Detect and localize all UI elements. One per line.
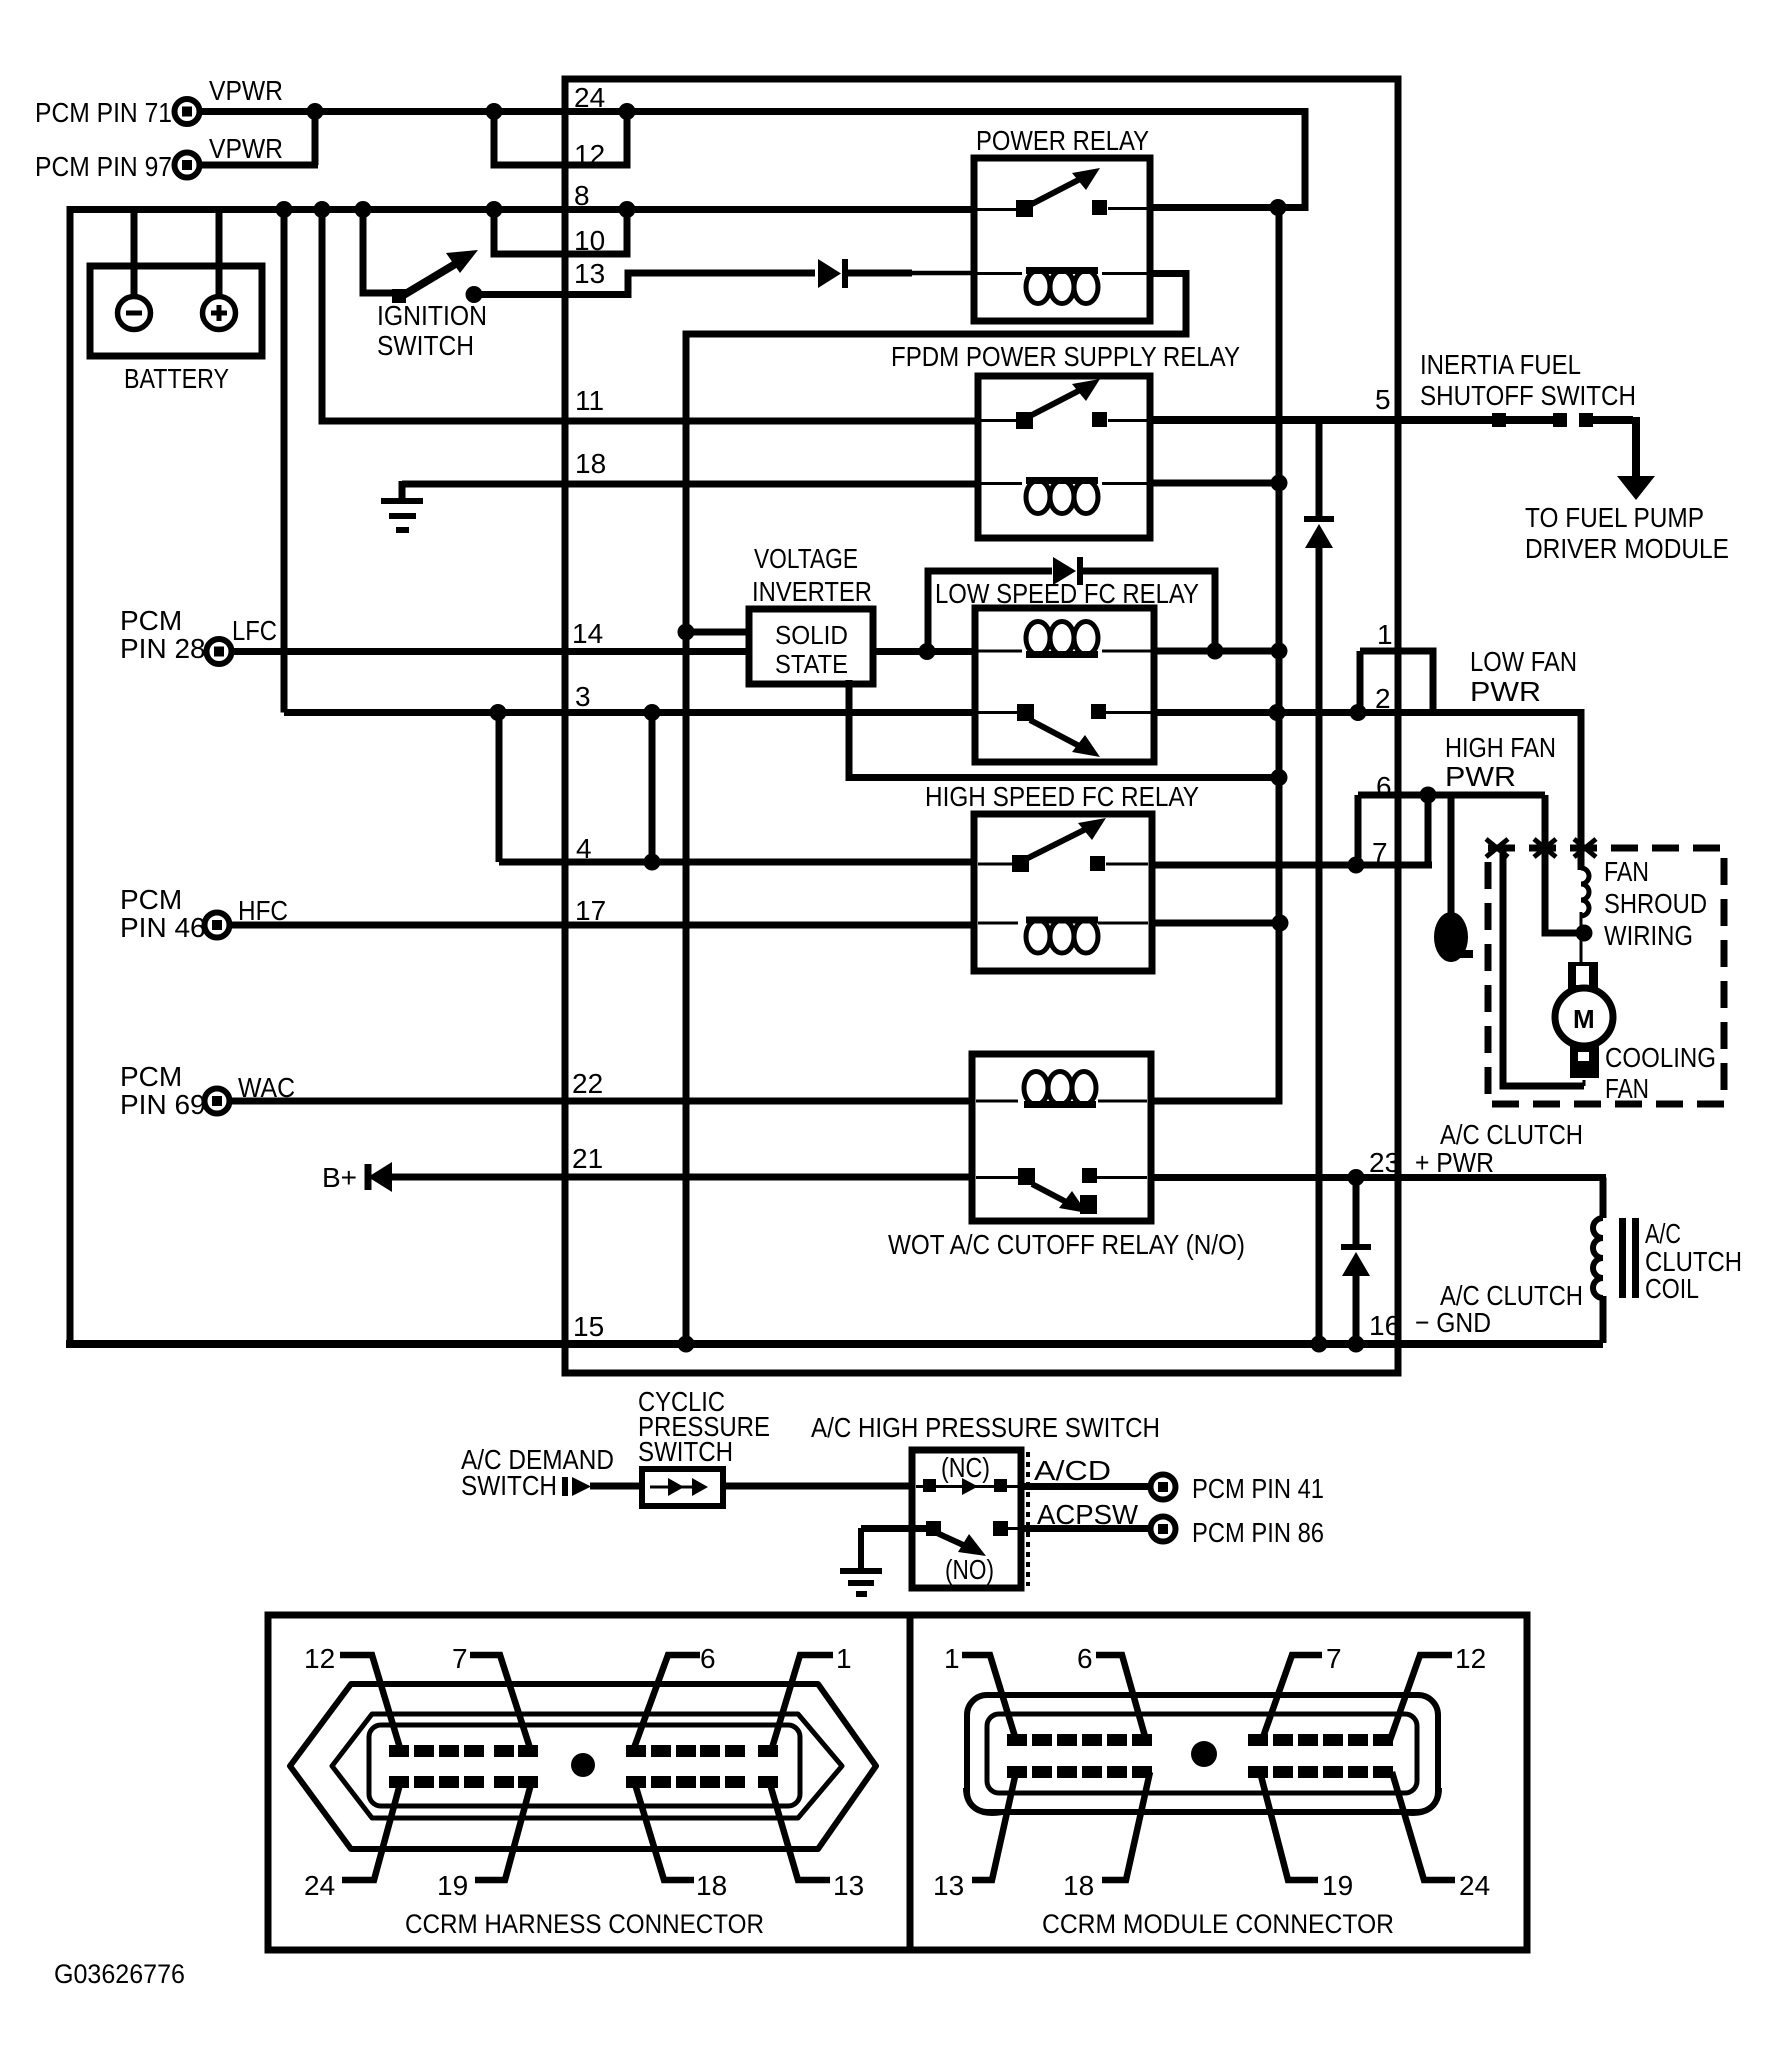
svg-text:+ PWR: + PWR <box>1415 1147 1494 1178</box>
svg-text:BATTERY: BATTERY <box>124 363 229 394</box>
svg-text:G03626776: G03626776 <box>54 1959 185 1989</box>
svg-text:WIRING: WIRING <box>1604 920 1693 951</box>
svg-text:A/CD: A/CD <box>1034 1455 1111 1486</box>
svg-text:FPDM POWER SUPPLY RELAY: FPDM POWER SUPPLY RELAY <box>891 341 1240 372</box>
svg-text:VOLTAGE: VOLTAGE <box>754 543 858 574</box>
svg-text:7: 7 <box>1326 1643 1342 1674</box>
svg-text:11: 11 <box>575 385 604 416</box>
svg-text:VPWR: VPWR <box>209 75 283 106</box>
svg-text:INVERTER: INVERTER <box>752 576 872 607</box>
svg-text:14: 14 <box>572 618 603 649</box>
svg-text:ACPSW: ACPSW <box>1037 1499 1139 1530</box>
svg-text:19: 19 <box>1322 1870 1353 1901</box>
svg-text:13: 13 <box>933 1870 964 1901</box>
svg-text:PIN 69: PIN 69 <box>120 1089 206 1120</box>
svg-text:3: 3 <box>575 681 591 712</box>
svg-text:21: 21 <box>572 1143 603 1174</box>
svg-text:SWITCH: SWITCH <box>377 330 474 361</box>
svg-text:FAN: FAN <box>1605 1073 1649 1104</box>
svg-text:10: 10 <box>574 225 605 256</box>
svg-text:2: 2 <box>1375 683 1391 714</box>
svg-text:SWITCH: SWITCH <box>461 1470 557 1501</box>
svg-text:PWR: PWR <box>1470 676 1541 707</box>
svg-text:PIN 46: PIN 46 <box>120 912 206 943</box>
svg-text:(NO): (NO) <box>945 1554 994 1585</box>
svg-text:7: 7 <box>452 1643 468 1674</box>
svg-text:LOW SPEED FC RELAY: LOW SPEED FC RELAY <box>935 578 1199 609</box>
svg-text:PIN 28: PIN 28 <box>120 633 206 664</box>
svg-text:LOW FAN: LOW FAN <box>1470 646 1577 677</box>
svg-text:PCM PIN 86: PCM PIN 86 <box>1192 1517 1324 1548</box>
svg-text:16: 16 <box>1369 1310 1400 1341</box>
svg-text:PCM PIN 97: PCM PIN 97 <box>35 151 172 182</box>
svg-text:A/C CLUTCH: A/C CLUTCH <box>1440 1119 1583 1150</box>
svg-text:24: 24 <box>304 1870 335 1901</box>
svg-text:24: 24 <box>574 82 605 113</box>
svg-text:8: 8 <box>574 180 590 211</box>
svg-text:A/C: A/C <box>1645 1218 1681 1249</box>
svg-text:CCRM HARNESS CONNECTOR: CCRM HARNESS CONNECTOR <box>405 1909 764 1939</box>
svg-text:INERTIA FUEL: INERTIA FUEL <box>1420 349 1581 380</box>
svg-text:HFC: HFC <box>238 895 288 926</box>
svg-text:COOLING: COOLING <box>1605 1042 1716 1073</box>
svg-text:M: M <box>1573 1004 1595 1034</box>
svg-text:IGNITION: IGNITION <box>377 300 487 331</box>
svg-text:15: 15 <box>573 1311 604 1342</box>
svg-text:VPWR: VPWR <box>209 133 283 164</box>
svg-text:HIGH SPEED FC RELAY: HIGH SPEED FC RELAY <box>925 781 1199 812</box>
svg-text:TO FUEL PUMP: TO FUEL PUMP <box>1525 502 1704 533</box>
svg-text:PWR: PWR <box>1445 761 1516 792</box>
svg-text:SOLID: SOLID <box>775 620 848 650</box>
svg-text:13: 13 <box>574 258 605 289</box>
svg-text:POWER RELAY: POWER RELAY <box>976 125 1149 156</box>
svg-text:− GND: − GND <box>1415 1307 1491 1338</box>
svg-text:5: 5 <box>1375 384 1391 415</box>
svg-text:22: 22 <box>572 1068 603 1099</box>
svg-text:23: 23 <box>1369 1147 1400 1178</box>
svg-text:19: 19 <box>437 1870 468 1901</box>
svg-text:PCM PIN 71: PCM PIN 71 <box>35 97 172 128</box>
svg-text:WAC: WAC <box>238 1072 295 1103</box>
svg-text:18: 18 <box>696 1870 727 1901</box>
svg-text:12: 12 <box>574 139 605 170</box>
svg-text:HIGH FAN: HIGH FAN <box>1445 732 1556 763</box>
svg-text:A/C HIGH PRESSURE SWITCH: A/C HIGH PRESSURE SWITCH <box>811 1412 1160 1443</box>
svg-text:18: 18 <box>575 448 606 479</box>
svg-text:1: 1 <box>836 1643 852 1674</box>
svg-text:12: 12 <box>1455 1643 1486 1674</box>
svg-text:6: 6 <box>1077 1643 1093 1674</box>
svg-text:1: 1 <box>944 1643 960 1674</box>
svg-text:1: 1 <box>1377 619 1393 650</box>
svg-text:PCM: PCM <box>120 1061 182 1092</box>
svg-text:PCM: PCM <box>120 884 182 915</box>
svg-text:17: 17 <box>575 895 606 926</box>
svg-text:SHROUD: SHROUD <box>1604 888 1707 919</box>
svg-text:CCRM MODULE CONNECTOR: CCRM MODULE CONNECTOR <box>1042 1909 1394 1939</box>
svg-text:4: 4 <box>576 833 592 864</box>
svg-text:SWITCH: SWITCH <box>638 1436 733 1467</box>
svg-text:B+: B+ <box>322 1162 357 1193</box>
svg-text:6: 6 <box>700 1643 716 1674</box>
svg-text:12: 12 <box>304 1643 335 1674</box>
svg-text:FAN: FAN <box>1604 856 1649 887</box>
svg-text:13: 13 <box>833 1870 864 1901</box>
svg-text:PCM: PCM <box>120 605 182 636</box>
svg-text:STATE: STATE <box>775 649 848 679</box>
svg-text:(NC): (NC) <box>941 1452 990 1483</box>
svg-text:7: 7 <box>1372 837 1388 868</box>
svg-text:LFC: LFC <box>232 615 277 646</box>
svg-text:SHUTOFF SWITCH: SHUTOFF SWITCH <box>1420 380 1636 411</box>
svg-text:COIL: COIL <box>1645 1273 1699 1304</box>
svg-text:PCM PIN 41: PCM PIN 41 <box>1192 1473 1324 1504</box>
svg-text:WOT A/C CUTOFF RELAY (N/O): WOT A/C CUTOFF RELAY (N/O) <box>888 1229 1245 1260</box>
svg-text:18: 18 <box>1063 1870 1094 1901</box>
svg-text:24: 24 <box>1459 1870 1490 1901</box>
svg-text:6: 6 <box>1376 771 1392 802</box>
svg-text:DRIVER MODULE: DRIVER MODULE <box>1525 533 1729 564</box>
